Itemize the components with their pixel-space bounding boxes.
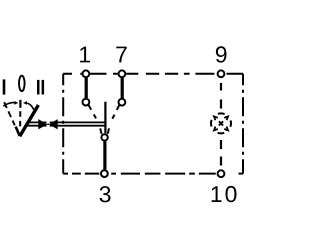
terminal 3 border circle — [101, 170, 108, 177]
contact position dashes (to terminal 7) — [108, 105, 119, 127]
terminal 1 label — [80, 47, 90, 63]
terminal 3 label — [100, 186, 111, 202]
return arrow right — [27, 103, 34, 110]
terminal 7 contact — [119, 99, 126, 106]
terminal 1 border circle — [83, 70, 90, 77]
fork prong right — [108, 128, 109, 133]
lamp wire lower (dashed) — [220, 140, 222, 166]
position label 0 — [19, 76, 25, 92]
position label I — [3, 79, 6, 94]
fork prong left — [100, 128, 101, 133]
illumination lamp (dashed circle with X) — [211, 113, 231, 133]
pivot contact circle — [101, 134, 107, 140]
lamp wire upper (dashed) — [220, 83, 222, 109]
switch housing border right (dash-dot) — [242, 74, 244, 174]
terminal 7 wire down — [121, 78, 124, 98]
terminal 7 border circle — [119, 70, 126, 77]
terminal 9 border circle — [218, 70, 225, 77]
actuator linkage (double line) — [27, 121, 107, 123]
terminal 9 label — [216, 46, 227, 62]
switch housing border left (dash-dot) — [62, 74, 64, 174]
contact position dashes (to terminal 1) — [89, 105, 101, 127]
position label II — [37, 80, 40, 95]
terminal 10 label — [212, 186, 237, 202]
toggle position line 0 (dashed) — [19, 111, 21, 128]
actuator coupling (bowtie) — [47, 119, 50, 130]
return arrow left — [3, 103, 15, 107]
terminal 7 label — [116, 47, 126, 63]
terminal 3 wire up — [103, 142, 106, 170]
terminal 1 wire down — [85, 78, 88, 98]
terminal 10 border circle — [218, 170, 225, 177]
lever (solid, position II) — [20, 105, 39, 136]
moving contact arm — [104, 102, 106, 134]
toggle position line 0 tick — [19, 100, 21, 108]
terminal 1 contact — [83, 99, 90, 106]
toggle position line I (dashed) — [4, 102, 15, 125]
switch housing border bottom (dash-dot) — [63, 173, 243, 175]
switch housing border top (dash-dot) — [63, 73, 243, 75]
